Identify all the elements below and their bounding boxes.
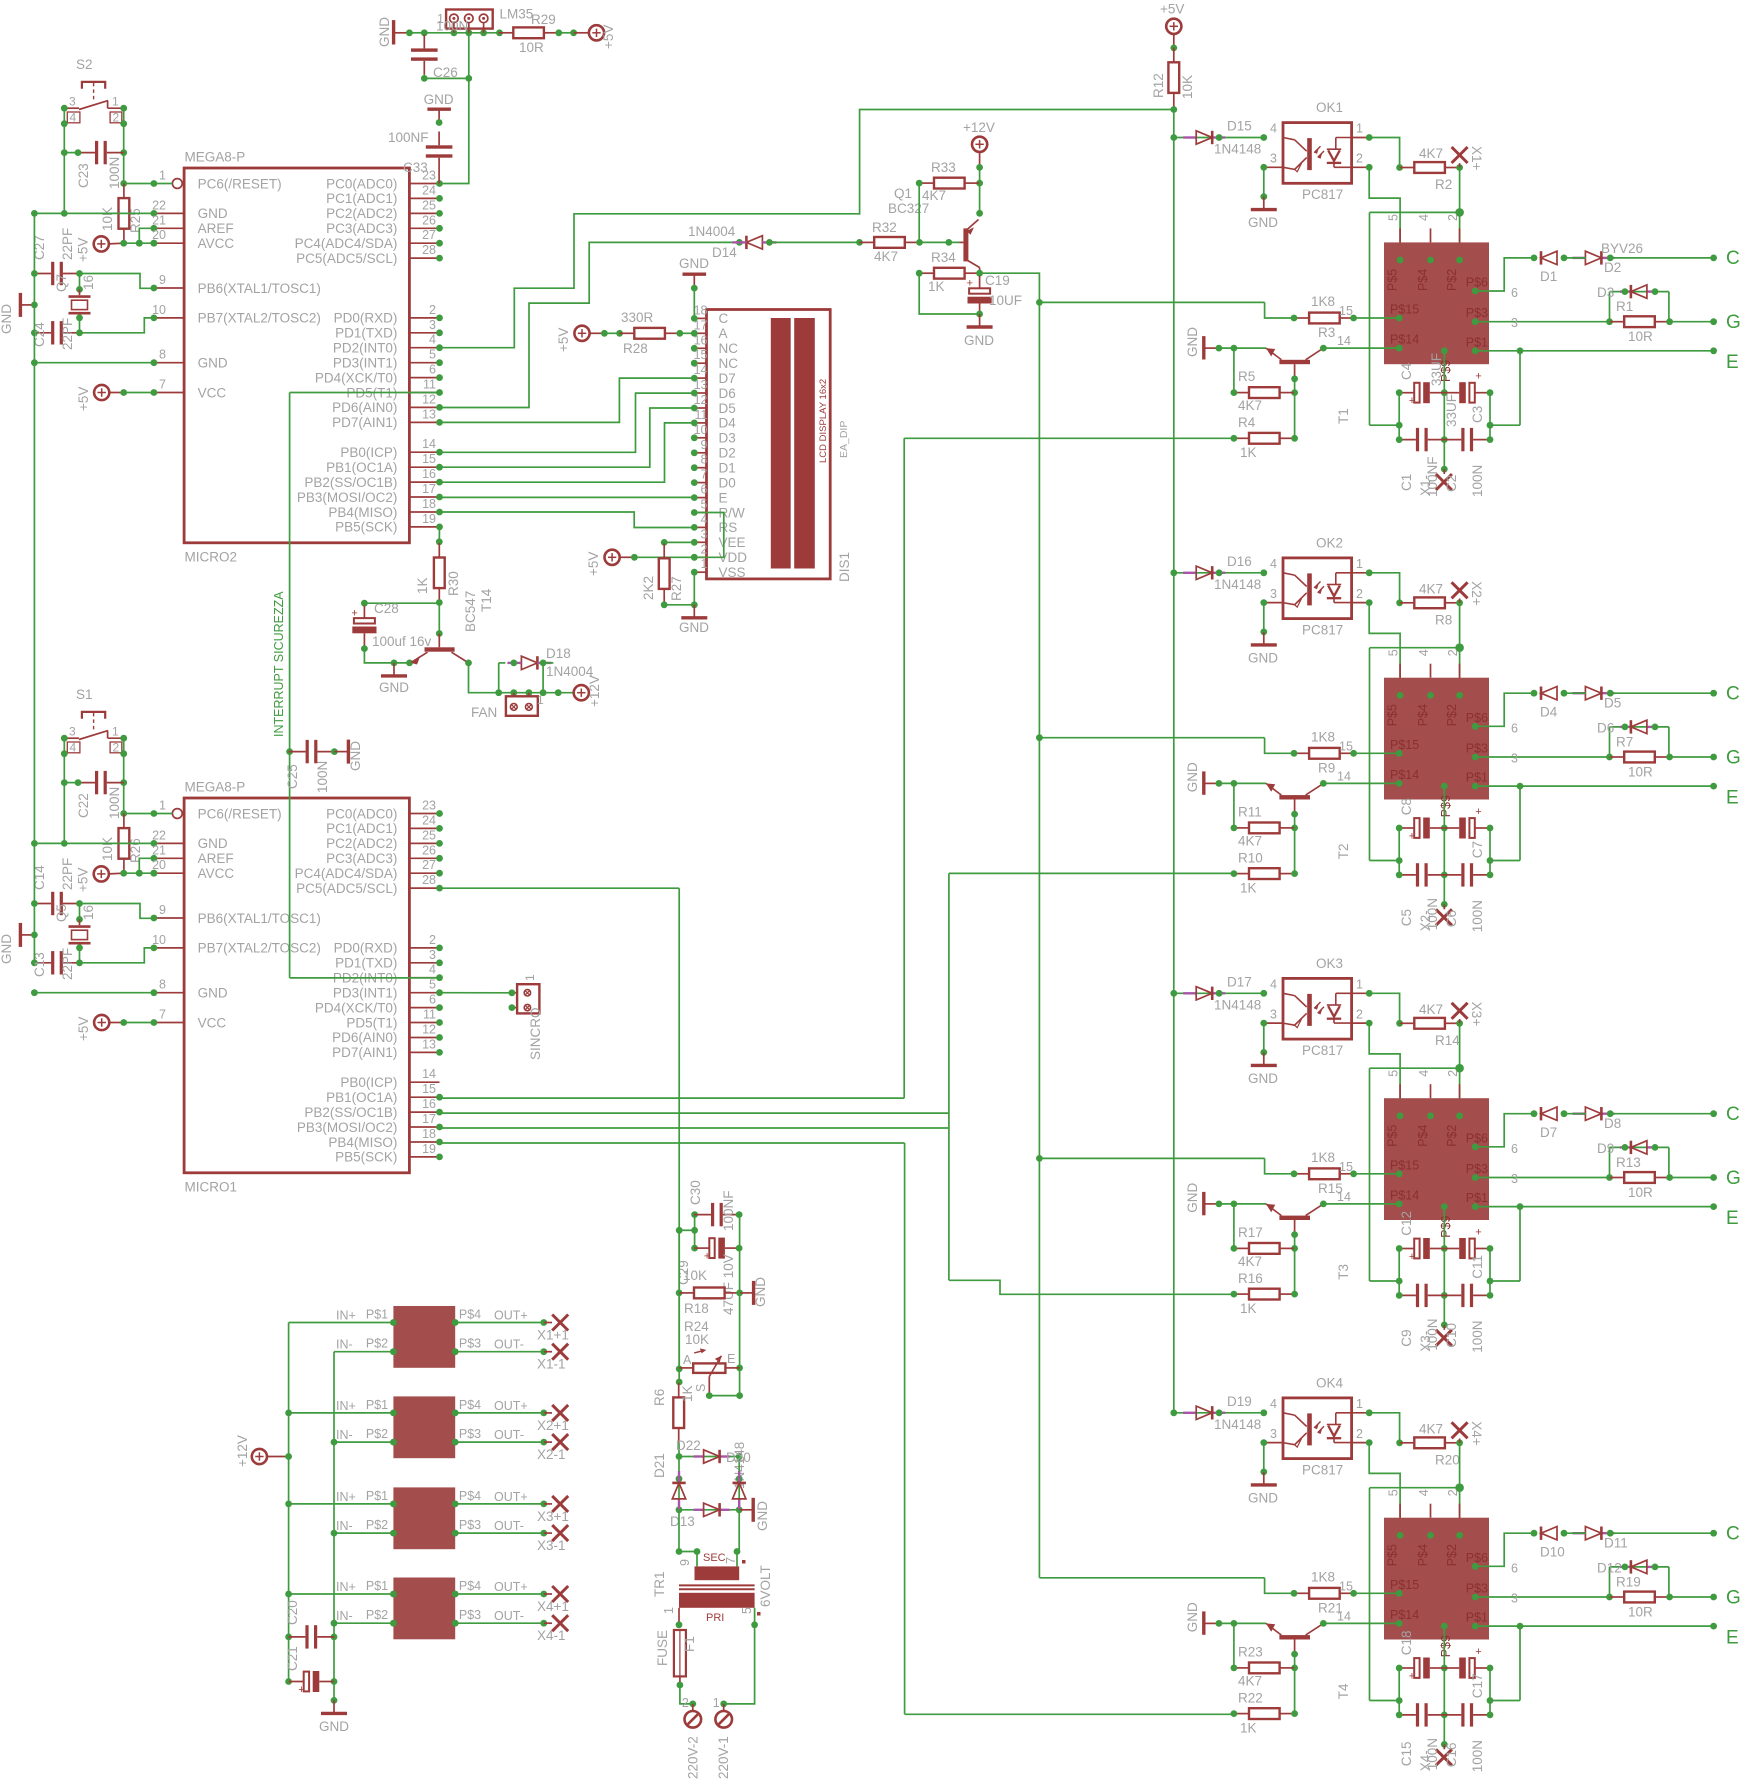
MICRO1 pin 24 PC1(ADC1) <box>326 813 443 836</box>
resistor R16 1K <box>1231 1248 1299 1315</box>
IC MEGA8-P MICRO2 <box>184 168 409 543</box>
wire C28 top <box>361 600 443 637</box>
diode D6 <box>1597 720 1669 757</box>
svg-text:P$1: P$1 <box>366 1398 388 1412</box>
svg-text:PB3(MOSI/OC2): PB3(MOSI/OC2) <box>297 490 398 505</box>
MICRO2 pin 4 PD2(INT0) <box>333 333 443 356</box>
svg-text:+: + <box>967 278 973 290</box>
MICRO1 pin 9 PB6(XTAL1/TOSC1) <box>151 903 321 926</box>
+5V R12 <box>1160 2 1184 52</box>
svg-text:PC0(ADC0): PC0(ADC0) <box>326 806 397 821</box>
+5V R28 <box>556 326 608 352</box>
svg-text:5: 5 <box>1387 214 1401 221</box>
MICRO1 pin 2 PD0(RXD) <box>334 933 443 956</box>
MICRO2 pin 27 PC4(ADC4/SDA) <box>295 228 443 251</box>
svg-text:C: C <box>1726 683 1740 704</box>
svg-text:22: 22 <box>152 198 166 212</box>
svg-text:C2: C2 <box>1444 475 1459 492</box>
capacitor C1 <box>1396 428 1445 451</box>
svg-text:X2+1: X2+1 <box>537 1418 569 1433</box>
svg-text:1: 1 <box>701 557 708 571</box>
svg-text:+: + <box>1409 395 1415 407</box>
svg-text:R5: R5 <box>1238 369 1255 384</box>
svg-text:AVCC: AVCC <box>198 866 235 881</box>
svg-text:INTERRUPT SICUREZZA: INTERRUPT SICUREZZA <box>272 591 286 737</box>
connector X3- <box>1436 1325 1452 1346</box>
svg-text:MICRO2: MICRO2 <box>185 550 238 565</box>
svg-text:+: + <box>1409 1671 1415 1683</box>
MICRO2 pin 14 PB0(ICP) <box>340 437 443 460</box>
capacitor C29 47UF <box>676 1238 742 1315</box>
MICRO2 pin 8 GND <box>151 348 228 371</box>
svg-text:1K8: 1K8 <box>1311 294 1335 309</box>
svg-text:C17: C17 <box>1470 1674 1485 1699</box>
svg-text:C21: C21 <box>285 1646 300 1671</box>
svg-text:VSS: VSS <box>719 565 746 580</box>
capacitor C3 <box>1445 371 1494 404</box>
MICRO2 pin 5 PD3(INT1) <box>333 348 443 371</box>
svg-text:IN-: IN- <box>336 1609 353 1623</box>
svg-text:R28: R28 <box>623 341 648 356</box>
svg-text:R34: R34 <box>931 250 956 265</box>
svg-text:R20: R20 <box>1435 1452 1460 1467</box>
svg-text:PB0(ICP): PB0(ICP) <box>340 1075 397 1090</box>
MICRO2 pin 9 PB6(XTAL1/TOSC1) <box>151 273 321 296</box>
wire R24 A junction <box>676 1369 683 1386</box>
LM35 labels <box>436 7 556 34</box>
svg-text:R3: R3 <box>1318 325 1335 340</box>
svg-text:5: 5 <box>429 978 436 992</box>
svg-text:4: 4 <box>1417 1070 1431 1077</box>
node G3 <box>1726 1168 1741 1189</box>
svg-text:17: 17 <box>422 1112 436 1126</box>
svg-text:1K: 1K <box>1240 1720 1257 1735</box>
R25 labels <box>100 207 143 233</box>
svg-text:PB6(XTAL1/TOSC1): PB6(XTAL1/TOSC1) <box>198 911 321 926</box>
wire bridge top <box>676 1443 743 1460</box>
cap labels ch4 <box>1399 1631 1485 1773</box>
svg-text:D2: D2 <box>719 446 736 461</box>
svg-text:5: 5 <box>740 1607 754 1614</box>
wire GND pin8 <box>31 359 154 366</box>
OK3 pin3 gnd <box>1248 1020 1283 1086</box>
svg-text:P$1: P$1 <box>1466 1191 1488 1205</box>
svg-text:1K8: 1K8 <box>1311 729 1335 744</box>
ground left <box>0 293 38 334</box>
svg-text:7: 7 <box>159 378 166 392</box>
svg-text:BC327: BC327 <box>888 201 929 216</box>
ground C33 <box>424 92 454 126</box>
wire T3 collector <box>1320 1190 1399 1208</box>
svg-text:D6: D6 <box>1597 720 1614 735</box>
resistor R11 4K7 <box>1231 783 1295 848</box>
svg-text:GND: GND <box>1248 650 1278 665</box>
svg-text:D12: D12 <box>1597 1560 1622 1575</box>
+12V FAN <box>574 675 602 707</box>
wire X2+ junction <box>1370 603 1464 861</box>
capacitor C15 <box>1396 1703 1445 1726</box>
wire T4 base <box>1291 1651 1298 1672</box>
svg-text:P$2: P$2 <box>366 1518 388 1532</box>
svg-text:D3: D3 <box>1597 285 1614 300</box>
svg-text:10K: 10K <box>683 1268 707 1283</box>
svg-text:1K: 1K <box>680 1385 695 1402</box>
ground T2 <box>1185 762 1266 795</box>
connector X4+ <box>1452 1421 1484 1446</box>
svg-text:3: 3 <box>1270 1427 1277 1441</box>
wire VCC row <box>120 389 154 396</box>
svg-text:2K2: 2K2 <box>641 576 656 600</box>
svg-text:P$4: P$4 <box>459 1489 481 1503</box>
svg-text:BYV26: BYV26 <box>1601 241 1643 256</box>
resistor R8 4K7 <box>1400 581 1463 627</box>
svg-text:D1: D1 <box>1540 269 1557 284</box>
connector LM35 <box>446 10 493 33</box>
svg-text:4K7: 4K7 <box>1419 1421 1443 1436</box>
svg-text:3: 3 <box>1511 316 1518 330</box>
wire return bus <box>331 1352 338 1704</box>
DC module 3 <box>289 1487 569 1553</box>
svg-text:OUT+: OUT+ <box>494 1399 528 1413</box>
potentiometer R24 10K <box>679 1319 739 1399</box>
+5V AVCC <box>76 866 124 892</box>
svg-text:2: 2 <box>429 303 436 317</box>
svg-text:100N: 100N <box>107 157 122 189</box>
svg-text:P$2: P$2 <box>366 1427 388 1441</box>
svg-text:PC4(ADC4/SDA): PC4(ADC4/SDA) <box>295 866 398 881</box>
svg-text:4K7: 4K7 <box>1238 1254 1262 1269</box>
svg-text:PC0(ADC0): PC0(ADC0) <box>326 176 397 191</box>
ground C19 <box>964 314 994 348</box>
svg-text:13: 13 <box>422 407 436 421</box>
wire VSS <box>661 572 698 608</box>
wire P$9 <box>1441 1626 1448 1748</box>
resistor R18 10K <box>679 1268 743 1316</box>
svg-text:AREF: AREF <box>198 851 234 866</box>
MICRO2 pin 22 GND <box>151 198 228 221</box>
resistor R21 1K8 <box>1291 1569 1400 1615</box>
svg-text:4K7: 4K7 <box>922 188 946 203</box>
svg-text:PB1(OC1A): PB1(OC1A) <box>326 460 397 475</box>
OK1 pin1 wire <box>1352 134 1403 171</box>
wire PD6 to D14 <box>440 242 740 407</box>
svg-text:18: 18 <box>694 303 708 317</box>
svg-text:+: + <box>1475 1646 1481 1658</box>
capacitor C30 100NF <box>688 1180 742 1231</box>
capacitor C19 10UF <box>967 273 1022 317</box>
ground LCD VSS <box>679 605 709 635</box>
wire RW tie <box>694 513 724 558</box>
svg-text:100NF: 100NF <box>388 130 429 145</box>
wire bridge right <box>736 1457 743 1514</box>
wire R33 to base <box>918 183 920 242</box>
OK3 pin1 wire <box>1352 990 1403 1027</box>
svg-text:1K: 1K <box>1240 880 1257 895</box>
crystal Q7 <box>69 274 91 333</box>
LCD pins <box>691 303 747 580</box>
svg-text:VCC: VCC <box>198 385 227 400</box>
svg-text:9: 9 <box>678 1559 692 1566</box>
svg-text:NC: NC <box>719 356 739 371</box>
svg-text:P$6: P$6 <box>1466 1131 1488 1145</box>
svg-text:R30: R30 <box>446 571 461 596</box>
MICRO2 pin 15 PB1(OC1A) <box>326 452 443 475</box>
node C2 <box>1726 683 1740 704</box>
R26 labels <box>100 837 143 863</box>
DC module 4 <box>289 1578 569 1644</box>
svg-text:OUT-: OUT- <box>494 1609 524 1623</box>
resistor R33 4K7 <box>916 160 980 203</box>
svg-text:E: E <box>727 1352 735 1366</box>
svg-text:15: 15 <box>422 452 436 466</box>
wire cap right <box>1487 828 1494 875</box>
diode D17 1N4148 <box>1170 974 1267 1012</box>
svg-text:100N: 100N <box>107 787 122 819</box>
svg-text:12: 12 <box>422 392 436 406</box>
wire Q1 collector <box>976 183 983 217</box>
svg-text:1: 1 <box>112 95 119 109</box>
svg-text:2: 2 <box>1446 649 1460 656</box>
svg-text:GND: GND <box>1185 1602 1200 1632</box>
svg-text:GND: GND <box>377 17 392 47</box>
switch S1 <box>64 712 123 754</box>
node C4 <box>1726 1523 1740 1544</box>
wire E rail <box>736 1215 743 1399</box>
svg-text:1K: 1K <box>1240 445 1257 460</box>
svg-text:PC1(ADC1): PC1(ADC1) <box>326 821 397 836</box>
capacitor C8 <box>1396 818 1445 843</box>
svg-text:D18: D18 <box>546 646 571 661</box>
svg-text:R9: R9 <box>1318 760 1335 775</box>
svg-text:EA_DIP: EA_DIP <box>838 421 850 458</box>
svg-text:P$9: P$9 <box>1439 795 1453 817</box>
svg-text:10R: 10R <box>1628 1185 1653 1200</box>
svg-text:P$4: P$4 <box>1416 269 1430 291</box>
wire LM35 rail <box>406 29 503 36</box>
transistor T1 <box>1266 348 1351 424</box>
wire PB2/PB3 risers <box>440 873 1234 1294</box>
svg-text:GND: GND <box>679 620 709 635</box>
svg-text:4: 4 <box>1417 214 1431 221</box>
capacitor C6 <box>1444 863 1493 886</box>
svg-text:2: 2 <box>1446 214 1460 221</box>
+5V AVCC <box>76 236 124 262</box>
svg-text:X3+1: X3+1 <box>537 1509 569 1524</box>
svg-text:6VOLT: 6VOLT <box>758 1565 773 1607</box>
OK2 pin1 wire <box>1352 569 1403 606</box>
wire S2 right leg <box>120 105 127 187</box>
wire XTAL2 <box>80 948 154 963</box>
svg-text:16: 16 <box>81 905 96 920</box>
svg-text:E: E <box>1726 352 1739 373</box>
svg-text:S2: S2 <box>76 57 93 72</box>
svg-text:14: 14 <box>1337 769 1351 783</box>
wire R29 to +5V <box>559 32 589 34</box>
svg-text:2: 2 <box>1446 1489 1460 1496</box>
svg-text:G: G <box>1726 1168 1741 1189</box>
svg-text:PB7(XTAL2/TOSC2): PB7(XTAL2/TOSC2) <box>198 311 321 326</box>
svg-text:PB6(XTAL1/TOSC1): PB6(XTAL1/TOSC1) <box>198 281 321 296</box>
MICRO1 pin 4 PD2(INT0) <box>333 963 443 986</box>
wire T2 base <box>1291 811 1298 832</box>
svg-text:22PF: 22PF <box>60 318 75 350</box>
+12V converters <box>235 1435 289 1467</box>
svg-text:R27: R27 <box>669 576 684 601</box>
svg-text:PC6(/RESET): PC6(/RESET) <box>198 806 282 821</box>
capacitor C14 22PF <box>31 892 83 915</box>
svg-text:15: 15 <box>1339 304 1353 318</box>
svg-text:7: 7 <box>701 468 708 482</box>
diode D13 <box>670 1503 720 1529</box>
svg-text:100NF: 100NF <box>1425 456 1440 497</box>
svg-text:PC817: PC817 <box>1302 1462 1343 1477</box>
wire PB4-RS <box>440 512 695 528</box>
svg-text:D10: D10 <box>1540 1544 1565 1559</box>
svg-text:C25: C25 <box>285 764 300 789</box>
MICRO1 pin 19 PB5(SCK) <box>335 1142 443 1165</box>
resistor R19 10R <box>1610 1574 1718 1619</box>
svg-text:33UF: 33UF <box>1429 353 1444 386</box>
wire drive in R3 <box>1265 302 1294 318</box>
svg-text:R19: R19 <box>1616 1574 1641 1589</box>
svg-text:GND: GND <box>753 1277 768 1307</box>
svg-text:C10: C10 <box>1444 1323 1459 1348</box>
OK4 pin1 wire <box>1352 1409 1403 1446</box>
svg-text:PD6(AIN0): PD6(AIN0) <box>332 400 397 415</box>
connector X1+ <box>1452 146 1484 171</box>
svg-text:C8: C8 <box>1399 798 1414 815</box>
wire P$6 <box>1475 693 1534 735</box>
wire R32 to Q1 base <box>920 239 960 246</box>
wire bridge left <box>676 1457 683 1514</box>
svg-text:+5V: +5V <box>586 552 601 576</box>
svg-text:5: 5 <box>1387 649 1401 656</box>
svg-text:C15: C15 <box>1399 1742 1414 1767</box>
resistor R1 10R <box>1610 299 1718 344</box>
MICRO1 pin 21 AREF <box>151 843 234 866</box>
wire drive in R9 <box>1265 738 1294 754</box>
wire VDD <box>634 554 725 561</box>
svg-text:FUSE: FUSE <box>655 1630 670 1666</box>
MICRO1 pin 17 PB3(MOSI/OC2) <box>297 1112 443 1135</box>
svg-text:24: 24 <box>422 813 436 827</box>
diodes D4 D5 <box>1531 687 1717 720</box>
svg-text:100N: 100N <box>1470 1321 1485 1353</box>
svg-text:3: 3 <box>1270 152 1277 166</box>
svg-text:+: + <box>298 1684 304 1696</box>
svg-text:C11: C11 <box>1470 1255 1485 1279</box>
svg-text:3: 3 <box>429 948 436 962</box>
ground C25 <box>334 740 363 771</box>
svg-text:MICRO1: MICRO1 <box>185 1180 238 1195</box>
svg-text:PD2(INT0): PD2(INT0) <box>333 341 398 356</box>
+5V VCC <box>76 385 124 411</box>
svg-text:BC547: BC547 <box>463 591 478 632</box>
svg-text:GND: GND <box>319 1719 349 1734</box>
svg-text:1: 1 <box>112 725 119 739</box>
svg-text:10R: 10R <box>1628 329 1653 344</box>
svg-text:P$4: P$4 <box>459 1579 481 1593</box>
svg-text:C4: C4 <box>1399 362 1414 380</box>
svg-text:47UF 10V: 47UF 10V <box>721 1254 736 1315</box>
svg-text:10K: 10K <box>685 1332 709 1347</box>
svg-text:2: 2 <box>1356 1007 1363 1021</box>
svg-text:G: G <box>1726 1587 1741 1608</box>
svg-text:GND: GND <box>424 92 454 107</box>
op-amp OK3 PC817 <box>1270 956 1363 1058</box>
svg-text:4K7: 4K7 <box>1419 1002 1443 1017</box>
svg-text:GND: GND <box>1248 1490 1278 1505</box>
transformer TR1 secondary <box>678 1552 746 1580</box>
resistor R14 4K7 <box>1400 1002 1463 1048</box>
OK4 pin2 wire <box>1352 1439 1401 1535</box>
svg-text:R23: R23 <box>1238 1644 1263 1659</box>
svg-text:8: 8 <box>701 453 708 467</box>
svg-text:10: 10 <box>152 933 166 947</box>
svg-text:6: 6 <box>1511 1142 1518 1156</box>
svg-text:D22: D22 <box>676 1438 701 1453</box>
svg-text:21: 21 <box>152 213 166 227</box>
node E3 <box>1726 1208 1739 1229</box>
svg-text:PB2(SS/OC1B): PB2(SS/OC1B) <box>304 475 397 490</box>
svg-text:P$9: P$9 <box>1439 1635 1453 1657</box>
svg-text:+12V: +12V <box>963 120 995 135</box>
wire C28 bottom <box>364 649 413 667</box>
svg-text:3: 3 <box>69 95 76 109</box>
svg-text:100NF: 100NF <box>721 1190 736 1231</box>
svg-text:15: 15 <box>1339 739 1353 753</box>
wire PRI left <box>676 1608 683 1628</box>
svg-text:D7: D7 <box>1540 1125 1557 1140</box>
svg-text:16: 16 <box>81 275 96 290</box>
wire drive in R15 <box>1265 1158 1294 1174</box>
C24 labels <box>32 318 75 350</box>
svg-text:+: + <box>1409 831 1415 843</box>
svg-text:11: 11 <box>695 408 708 422</box>
svg-text:P$4: P$4 <box>459 1308 481 1322</box>
ground R18 <box>740 1277 768 1307</box>
svg-text:4: 4 <box>1417 1489 1431 1496</box>
svg-text:X1-1: X1-1 <box>537 1357 566 1372</box>
svg-text:+5V: +5V <box>76 238 91 262</box>
resistor R5 4K7 <box>1231 348 1295 413</box>
MICRO1 pin 22 GND <box>151 828 228 851</box>
svg-text:2: 2 <box>682 1696 689 1710</box>
svg-text:R6: R6 <box>652 1389 667 1406</box>
svg-text:25: 25 <box>422 198 436 212</box>
resistor R29 10R <box>499 27 577 55</box>
wire PD7-D7 <box>440 378 695 422</box>
svg-text:26: 26 <box>422 843 436 857</box>
diode D15 1N4148 <box>1170 119 1267 157</box>
svg-text:13: 13 <box>422 1037 436 1051</box>
svg-text:1K: 1K <box>415 577 430 594</box>
svg-text:OUT-: OUT- <box>494 1338 524 1352</box>
svg-text:PC2(ADC2): PC2(ADC2) <box>326 206 397 221</box>
diode D22 1N4148 <box>676 1438 747 1489</box>
svg-text:SEC: SEC <box>703 1552 726 1564</box>
svg-text:D14: D14 <box>712 245 737 260</box>
C22 labels <box>76 787 122 819</box>
svg-text:3: 3 <box>1511 1172 1518 1186</box>
svg-text:220V-1: 220V-1 <box>716 1736 731 1779</box>
wire T2 collector <box>1320 769 1399 787</box>
diode D12 <box>1597 1560 1669 1597</box>
svg-text:D11: D11 <box>1604 1535 1628 1550</box>
svg-text:PC817: PC817 <box>1302 187 1343 202</box>
svg-text:18: 18 <box>422 1127 436 1141</box>
resistor R15 1K8 <box>1291 1150 1400 1196</box>
